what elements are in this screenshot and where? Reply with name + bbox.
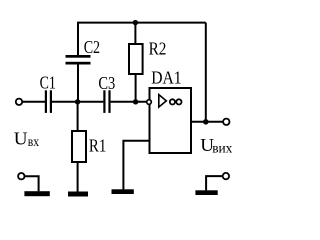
wire: lower-right terminal to ground (206, 176, 222, 190)
wire: R1 bottom to ground (77, 162, 79, 192)
wire: right vertical drop to output (205, 23, 207, 122)
svg-text:R1: R1 (89, 135, 106, 155)
ground bar lower-right (195, 190, 217, 195)
capacitor C1 (45, 90, 52, 113)
node C junction dot (top rail / R2 top) (133, 20, 138, 25)
wire: R2 bottom to node B (135, 74, 137, 102)
wire: node A down to R1 (77, 102, 79, 131)
ground bar lower-left (24, 191, 49, 196)
lower-right common terminal (223, 173, 229, 179)
ground bar under R1 (68, 192, 88, 197)
wire: C1 to C3 through node A (52, 101, 103, 103)
svg-text:вх: вх (28, 134, 40, 149)
svg-text:DA1: DA1 (151, 68, 181, 88)
wire: top feedback rail (78, 23, 206, 56)
op-amp infinity symbol (170, 99, 182, 104)
ground bar under op-amp (112, 189, 134, 194)
svg-text:вих: вих (212, 140, 232, 155)
capacitor C3 (103, 90, 110, 113)
node D junction dot (output) (203, 119, 209, 125)
label U_vyx (200, 135, 232, 156)
output terminal (223, 119, 229, 125)
svg-text:U: U (14, 128, 28, 148)
svg-text:C3: C3 (98, 73, 115, 93)
lower-left common terminal (18, 173, 24, 179)
op-amp DA1 body (150, 88, 192, 153)
node B junction dot (R2 bottom) (133, 99, 138, 104)
resistor R1 (72, 131, 86, 162)
wire: top rail to R2 (134, 23, 136, 44)
node A junction dot (75, 99, 80, 104)
label U_vx (14, 128, 40, 149)
input terminal (16, 99, 22, 105)
capacitor C2 (66, 55, 91, 65)
svg-text:C1: C1 (40, 73, 56, 93)
wire: op-amp non-inverting input to ground (123, 141, 149, 190)
wire: C3 to op-amp inverting input (111, 101, 147, 103)
wire: op-amp output (191, 121, 223, 123)
wire: C2 bottom to node A (77, 65, 79, 102)
svg-text:R2: R2 (149, 39, 167, 59)
op-amp triangle symbol (159, 95, 167, 108)
op-amp inverting input bubble (147, 100, 152, 105)
svg-text:C2: C2 (84, 37, 100, 57)
wire: lower-left terminal to ground (25, 176, 39, 191)
resistor R2 (129, 44, 143, 74)
wire: input terminal to C1 (23, 101, 45, 103)
